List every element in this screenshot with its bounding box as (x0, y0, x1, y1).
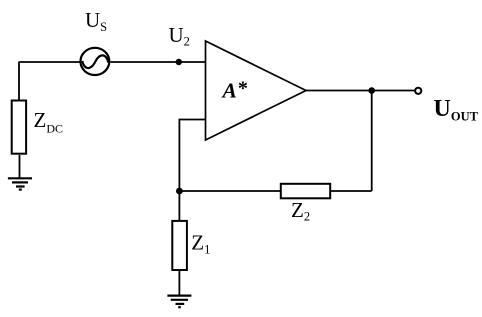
wire (111, 61, 206, 63)
svg-text:US: US (85, 8, 107, 34)
ac source US (81, 48, 110, 75)
svg-text:A*: A* (221, 78, 248, 103)
wire (371, 91, 373, 192)
wire (331, 190, 372, 192)
resistor Z2 (281, 184, 330, 199)
op-amp A* (206, 41, 307, 140)
resistor Z1 (172, 221, 187, 270)
wire (179, 190, 280, 192)
wire (19, 61, 80, 63)
svg-text:Z2: Z2 (291, 198, 310, 223)
svg-text:UOUT: UOUT (434, 96, 479, 124)
svg-text:ZDC: ZDC (34, 108, 64, 135)
wire (179, 120, 205, 189)
wire (178, 193, 180, 220)
node U2 (176, 59, 182, 65)
junction node (176, 188, 183, 195)
wire (19, 155, 21, 178)
svg-text:U2: U2 (169, 23, 190, 49)
svg-text:Z1: Z1 (191, 231, 210, 257)
terminal UOUT (415, 88, 421, 94)
wire (18, 62, 20, 101)
ground (167, 296, 191, 308)
wire (178, 271, 180, 296)
resistor ZDC (12, 101, 26, 154)
wire (306, 90, 414, 92)
ground (8, 178, 32, 189)
junction node (368, 87, 375, 94)
